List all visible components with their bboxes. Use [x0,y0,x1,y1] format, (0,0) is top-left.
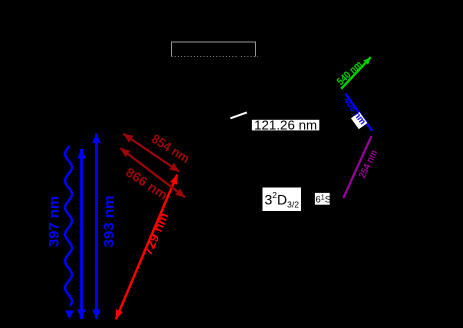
svg-text:121.26 nm: 121.26 nm [254,118,317,132]
label box 3^2 D 3/2 level [263,188,302,212]
dark red double arrow 854 nm transition [123,134,179,172]
blue line 408 nm transition [345,94,372,131]
svg-text:393 nm: 393 nm [101,196,116,248]
blue double arrow 397 nm transition [80,149,83,319]
green arrow 540 nm transition [341,57,371,89]
label box 121.26 nm [252,118,319,132]
svg-text:397 nm: 397 nm [47,196,62,247]
purple line 254 nm transition [343,136,371,198]
red double arrow 729 nm transition [116,175,177,320]
dark red double arrow 866 nm transition [120,148,185,197]
wavy blue fluorescence arrow 397 nm [65,146,74,319]
blue double arrow 393 nm transition [95,134,98,320]
blue label 408 nm with white patch behind nm [340,95,369,129]
label box 6^1 S level [315,193,331,206]
ionization continuum box (grey outline, dotted bottom) [172,42,258,57]
white leader line for Lyman-alpha [230,112,247,118]
